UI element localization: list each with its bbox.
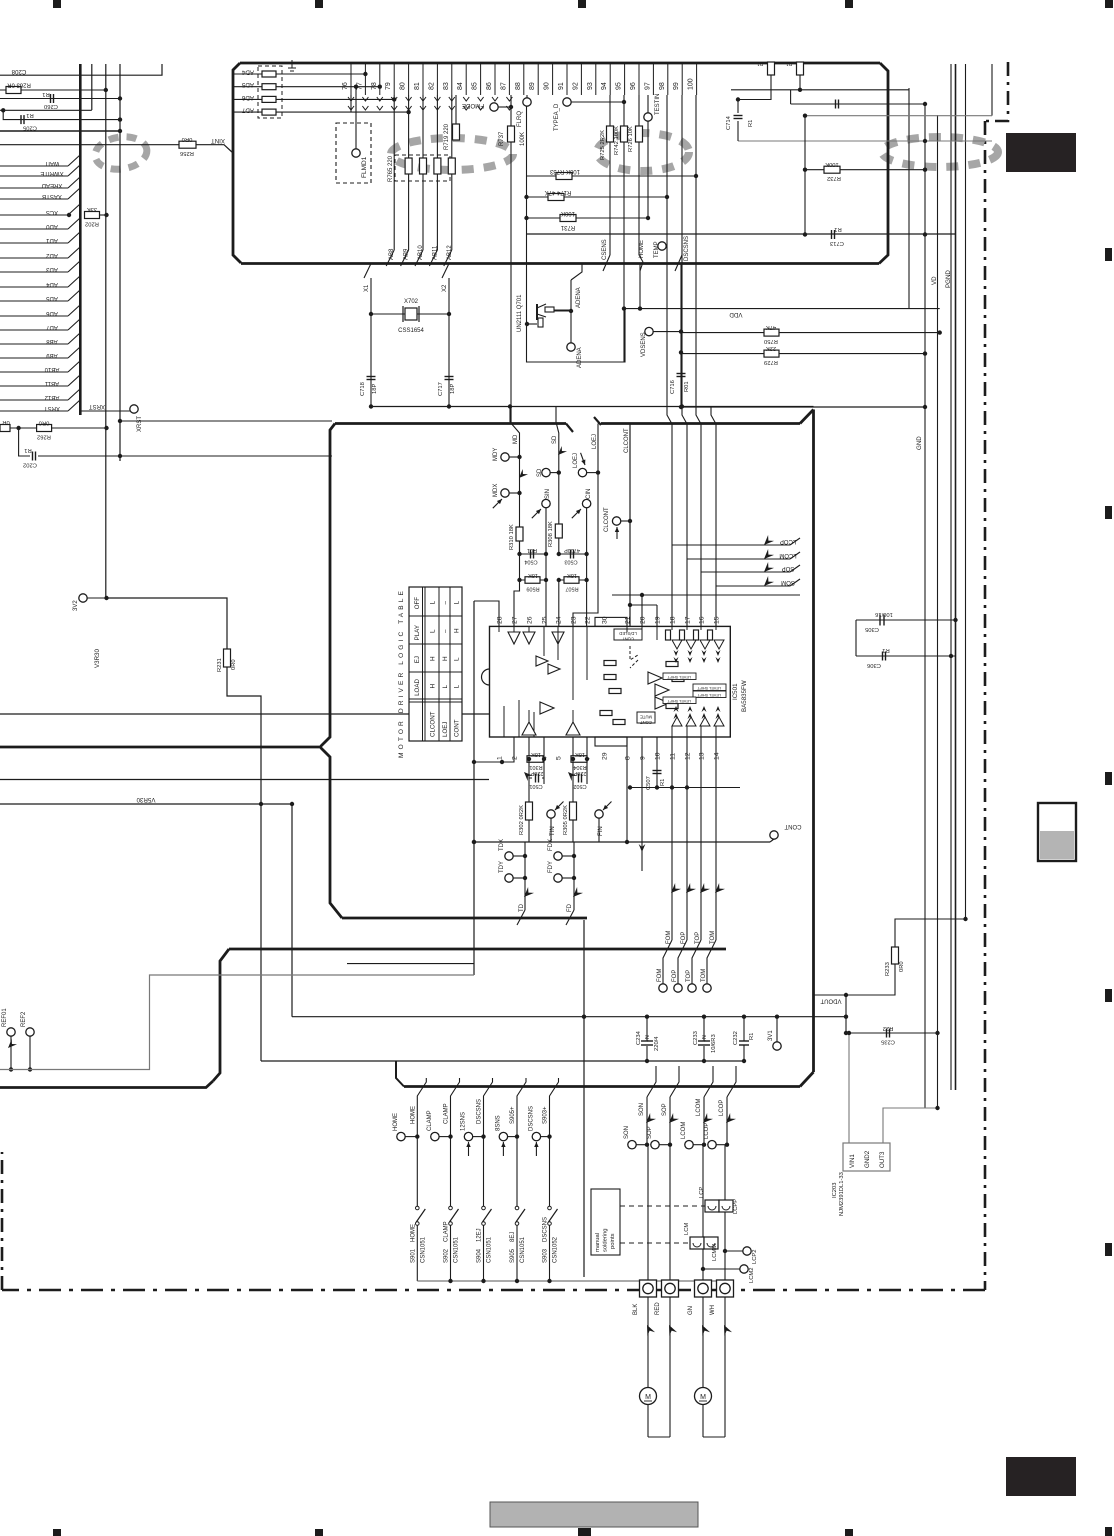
resistor R733 100K body: [556, 173, 572, 180]
svg-text:LD/SLED: LD/SLED: [619, 631, 636, 636]
labels CSENS HOME TEMP DSCSNS at IC bottom: [602, 236, 690, 261]
capacitor C234 220/4: [636, 1017, 660, 1061]
resistor R737 100K: [508, 126, 515, 142]
border dash-dot bottom horizontal: [2, 1289, 985, 1292]
resistor R231 0R0: [224, 649, 231, 667]
svg-text:PGND: PGND: [945, 270, 952, 288]
svg-text:R1: R1: [660, 779, 666, 786]
CIN circle: [582, 499, 590, 507]
svg-text:13: 13: [699, 752, 706, 760]
capacitor C205 plates: [20, 115, 22, 124]
capacitor C507 R1: [646, 737, 666, 790]
svg-text:XWRITE: XWRITE: [40, 170, 63, 176]
junction dots y1016: [582, 1015, 848, 1019]
connector LCM LCMM: [684, 1223, 718, 1261]
svg-text:16: 16: [699, 616, 706, 624]
svg-text:8: 8: [625, 756, 632, 760]
svg-text:V5R30: V5R30: [136, 796, 155, 803]
capacitor C205 line: [3, 110, 120, 119]
svg-text:R1: R1: [748, 120, 754, 127]
wires pins 98-100 down: [667, 95, 698, 407]
flag SOM: [716, 576, 800, 589]
arrow on MD wire: [516, 469, 528, 481]
svg-text:3V1: 3V1: [768, 1030, 774, 1041]
svg-text:AD5: AD5: [241, 81, 254, 88]
AD4-AD7 input lines: [233, 69, 411, 116]
svg-text:0R0: 0R0: [231, 659, 237, 670]
wire Q701 bottom loop: [527, 234, 626, 362]
X2 exit slant and label: [442, 264, 449, 293]
svg-text:L: L: [430, 629, 437, 633]
FLMD1 pin circle: [352, 149, 360, 157]
motor wire labels above: [639, 1099, 725, 1116]
IC203 labels: [832, 1172, 845, 1216]
REF2 circle: [21, 1011, 34, 1072]
wire y406 bus: [371, 406, 814, 408]
left address bus entry lines: [0, 155, 80, 411]
IC501 outline: [482, 617, 731, 746]
capacitor C260 line: [0, 98, 120, 100]
IC501 MUTE CONT box: [637, 712, 655, 725]
svg-text:XCS: XCS: [46, 209, 58, 215]
svg-text:LCM: LCM: [684, 1223, 690, 1235]
wires pins 15-18 up to flags: [667, 407, 716, 626]
svg-text:C235: C235: [881, 1039, 895, 1045]
resistor R305 0R2K: [563, 802, 577, 842]
wire pins 11-14 down FOM FOP TOP TOM: [670, 737, 716, 940]
servo block outline top edge: [335, 417, 800, 432]
resistor R302 0R2K: [519, 802, 533, 842]
switch bottom bus: [417, 1280, 733, 1282]
svg-text:R719 220: R719 220: [444, 123, 450, 150]
IC U201 outline right edge: [879, 63, 888, 264]
svg-text:CONT: CONT: [640, 720, 652, 725]
svg-text:100K: 100K: [825, 161, 839, 167]
svg-text:CLCONT: CLCONT: [430, 711, 437, 737]
svg-text:81: 81: [414, 82, 421, 90]
svg-text:R231: R231: [217, 658, 223, 672]
svg-text:R765 220: R765 220: [388, 155, 394, 182]
motor driver logic table grid: [409, 587, 462, 741]
switch bank net labels below edge: [410, 1099, 548, 1124]
svg-text:C503: C503: [564, 559, 577, 565]
svg-text:LCMM: LCMM: [712, 1244, 718, 1261]
svg-text:22K: 22K: [766, 345, 776, 351]
svg-text:24: 24: [556, 616, 563, 624]
switch bottom bus dots: [448, 1279, 551, 1283]
svg-text:C501: C501: [529, 783, 542, 789]
svg-text:22: 22: [585, 616, 592, 624]
svg-text:R1: R1: [834, 226, 841, 232]
motor M2 symbol: [695, 1388, 712, 1405]
svg-text:CSN1051: CSN1051: [487, 1236, 493, 1263]
right rail x937 PGND: [937, 115, 939, 1108]
right edge tick mark 5: [1105, 1243, 1112, 1256]
svg-text:LCOM: LCOM: [681, 1122, 687, 1139]
capacitor C504 R01 row: [517, 541, 548, 565]
gray highlight ring left: [93, 134, 149, 173]
resistor R731 100K body: [560, 215, 576, 222]
svg-text:LCOM: LCOM: [779, 552, 796, 558]
svg-text:R725 2R2K: R725 2R2K: [600, 130, 606, 160]
svg-text:R1: R1: [24, 447, 31, 453]
svg-text:AD6: AD6: [46, 310, 58, 316]
svg-text:XINT: XINT: [211, 137, 225, 144]
switch bank wires crossing bottom edge: [417, 1078, 558, 1137]
CIN pointer arrow: [570, 507, 582, 519]
svg-text:X702: X702: [404, 299, 419, 305]
svg-text:85: 85: [472, 82, 479, 90]
svg-text:HOME: HOME: [410, 1224, 416, 1242]
svg-text:CONT: CONT: [454, 719, 461, 737]
resistor R301 18K: [527, 737, 546, 770]
svg-text:220/4: 220/4: [654, 1036, 660, 1051]
resistor R507 18K row: [557, 572, 589, 592]
wire y88 from C714 area: [731, 89, 909, 91]
svg-text:FOM: FOM: [657, 969, 663, 982]
svg-text:C717: C717: [438, 382, 444, 396]
XRST circle and label: [80, 403, 143, 432]
SON SOP LCOM LCOP circles: [624, 1122, 729, 1149]
wire pin87 continue to Q701: [510, 407, 512, 424]
wire pin2 down: [502, 737, 514, 762]
capacitor C502 220P: [573, 759, 587, 802]
label 0R0 R256: [180, 136, 194, 156]
IC501 bottom pin numbers: [497, 752, 721, 760]
CONT circle: [770, 823, 802, 842]
svg-text:ADENA: ADENA: [576, 287, 582, 308]
wire pin77 FLMD1: [355, 87, 357, 150]
wire pin28 from left rail: [474, 601, 499, 626]
wire VDOUT down: [845, 995, 847, 1033]
svg-text:R1: R1: [42, 91, 49, 97]
wires pins 79-83 to AB8-AB12: [394, 95, 452, 250]
svg-text:S903: S903: [543, 1248, 549, 1263]
svg-text:AD4: AD4: [46, 281, 58, 287]
FDY circle: [548, 861, 576, 882]
svg-text:100K R733: 100K R733: [549, 168, 580, 174]
svg-text:LCPP: LCPP: [733, 1199, 739, 1214]
resistor R310 18K: [509, 524, 523, 550]
svg-text:AD7: AD7: [46, 324, 58, 330]
svg-text:33K: 33K: [87, 206, 97, 212]
motor M1 loop: [648, 1297, 670, 1437]
svg-text:AD6: AD6: [241, 94, 254, 101]
wire pin9 down: [639, 737, 646, 871]
svg-text:L: L: [454, 685, 461, 689]
svg-text:10/6R3: 10/6R3: [711, 1034, 717, 1053]
svg-text:VD: VD: [931, 276, 938, 285]
svg-text:18K: 18K: [575, 751, 585, 757]
AD4-AD7 dashed box: [258, 66, 282, 118]
right rail x925 VD: [924, 103, 926, 1108]
svg-text:C716: C716: [670, 380, 676, 394]
svg-text:R302 0R2K: R302 0R2K: [519, 805, 525, 835]
svg-text:CSN1051: CSN1051: [420, 1236, 426, 1263]
svg-text:18K: 18K: [531, 751, 541, 757]
servo block thick left elbow: [213, 949, 229, 1081]
switch sense circles: [393, 1106, 552, 1141]
svg-text:C260: C260: [44, 103, 58, 109]
MDY wire: [509, 456, 520, 458]
svg-text:8EJ: 8EJ: [510, 1232, 516, 1242]
svg-text:95: 95: [616, 82, 623, 90]
svg-text:OUT3: OUT3: [879, 1151, 886, 1168]
svg-text:CSN1052: CSN1052: [553, 1236, 559, 1263]
wire SIN net to pin25: [545, 580, 547, 626]
svg-text:HOME: HOME: [393, 1113, 399, 1131]
svg-text:17: 17: [685, 616, 692, 624]
svg-text:CLAMP: CLAMP: [444, 1221, 450, 1242]
svg-text:AB10: AB10: [44, 366, 59, 372]
svg-text:FDY: FDY: [548, 861, 554, 873]
svg-text:C714: C714: [726, 115, 732, 130]
registration mark bottom 4: [845, 1529, 853, 1536]
svg-text:R202: R202: [85, 221, 99, 227]
resistor R731 100K line: [527, 217, 649, 219]
registration mark bottom 3: [578, 1528, 591, 1536]
TYPEA_D wire to pin95: [571, 101, 624, 103]
svg-text:L: L: [442, 685, 449, 689]
svg-text:R732: R732: [827, 175, 841, 181]
svg-text:87: 87: [500, 82, 507, 90]
svg-text:CONT: CONT: [784, 823, 801, 829]
SIN pointer arrow: [530, 507, 542, 519]
svg-text:TYPEA_D: TYPEA_D: [554, 103, 560, 131]
svg-text:soldering: soldering: [603, 1228, 609, 1252]
FLMD1 dashed box: [336, 123, 371, 183]
resistor R733 100K line: [527, 175, 697, 177]
3V1 circle: [768, 1015, 781, 1051]
junction dots y1061: [645, 1059, 746, 1063]
svg-text:X2: X2: [442, 284, 448, 292]
wire y235 long with C713: [527, 226, 956, 246]
TD wire and arrow: [517, 842, 534, 925]
svg-text:25: 25: [542, 616, 549, 624]
svg-text:82: 82: [428, 82, 435, 90]
servo block thick y950 main: [229, 948, 726, 951]
resistor R233 0R0: [885, 917, 968, 976]
svg-text:SOP: SOP: [782, 565, 795, 571]
servo block outline bottom edge right part: [404, 1085, 800, 1088]
svg-text:H: H: [430, 684, 437, 689]
SIN circle: [542, 499, 550, 507]
wire y1069 long: [0, 975, 474, 1070]
REF01 circle: [2, 1008, 17, 1072]
wire CIN to pin22: [586, 554, 588, 626]
CLCONT stub: [621, 520, 630, 522]
svg-text:R726 10K: R726 10K: [628, 126, 634, 152]
svg-text:8SNS: 8SNS: [495, 1115, 501, 1131]
svg-text:R233: R233: [885, 962, 891, 976]
svg-text:S902: S902: [444, 1248, 450, 1263]
svg-text:93: 93: [587, 82, 594, 90]
registration mark top 4: [845, 0, 853, 8]
FMODE pin circle: [490, 103, 498, 111]
resistor R719 220: [453, 124, 460, 140]
label R231 0R0: [217, 658, 237, 672]
capacitor C260 plates: [50, 94, 52, 103]
right rail x951: [950, 64, 952, 1090]
servo block bus thick y950: [0, 746, 319, 749]
svg-text:100K: 100K: [561, 210, 575, 216]
svg-text:SD: SD: [537, 468, 543, 477]
svg-text:C234: C234: [636, 1030, 642, 1045]
svg-text:EJ: EJ: [414, 656, 421, 663]
svg-text:R174 47K: R174 47K: [545, 189, 572, 195]
svg-text:+N: +N: [702, 1035, 708, 1042]
wire y1016 long: [292, 1016, 846, 1018]
svg-text:GND: GND: [916, 436, 923, 450]
svg-text:L: L: [430, 601, 437, 605]
svg-text:points: points: [610, 1233, 616, 1249]
IC501 LD SLED CONT box: [614, 629, 642, 642]
svg-text:SOM: SOM: [781, 579, 795, 585]
svg-text:0R0: 0R0: [899, 961, 905, 972]
wire y421: [120, 420, 332, 422]
wire x681 vertical: [680, 264, 682, 407]
svg-text:12SNS: 12SNS: [461, 1112, 467, 1131]
svg-text:LOAD: LOAD: [414, 679, 421, 696]
capacitor C718 18P: [360, 377, 378, 397]
svg-text:manual: manual: [595, 1233, 601, 1252]
svg-text:GN: GN: [688, 1306, 694, 1315]
svg-text:R304: R304: [573, 764, 586, 770]
gray highlight bar bottom: [490, 1502, 698, 1527]
FMODE wire: [498, 106, 511, 108]
LOEJ wire entering: [573, 424, 598, 627]
VDOUT net: [814, 964, 896, 1004]
X1 exit slant and label: [364, 264, 371, 293]
svg-text:TDX: TDX: [499, 839, 505, 851]
svg-text:R308 18K: R308 18K: [548, 521, 554, 547]
pad arrows: [643, 1323, 732, 1336]
LOEJ circle: [578, 468, 586, 476]
svg-text:88: 88: [515, 82, 522, 90]
servo block outline left edge: [320, 424, 342, 919]
servo block outline top right chamfer: [800, 410, 814, 424]
svg-text:80: 80: [400, 82, 407, 90]
capacitor C232 R1: [733, 1017, 755, 1061]
svg-text:R305 0R2K: R305 0R2K: [563, 805, 569, 835]
IC203 NJM2391DL1-33 box: [843, 1143, 890, 1171]
servo block thick bottom left: [0, 1081, 213, 1088]
svg-text:X1: X1: [364, 284, 370, 292]
svg-text:R01: R01: [684, 381, 690, 392]
right rail x909: [908, 88, 910, 309]
border dash-dot left vertical: [1, 1152, 4, 1290]
manual soldering dashed links: [620, 1206, 705, 1243]
right rail x965: [965, 64, 967, 919]
svg-text:FD: FD: [567, 903, 573, 912]
svg-text:LCOP: LCOP: [704, 1123, 710, 1139]
svg-text:MDY: MDY: [493, 448, 499, 461]
IC U201 outline bottom edge: [241, 262, 879, 265]
gray highlight ring middle 2: [597, 133, 689, 171]
registration mark top right corner: [1105, 0, 1113, 8]
svg-text:LCOM: LCOM: [696, 1099, 702, 1116]
FDX circle: [548, 839, 576, 860]
svg-text:XRST: XRST: [89, 403, 105, 409]
wire pin87 down to VDSENS row: [510, 95, 512, 126]
svg-text:1: 1: [497, 756, 504, 760]
svg-text:S901: S901: [410, 1248, 416, 1263]
AB8-AB12 exit slants: [386, 250, 452, 266]
svg-text:18P: 18P: [450, 384, 456, 394]
IC203 wires: [847, 1031, 940, 1143]
registration mark top 3: [578, 0, 586, 8]
svg-text:WH: WH: [710, 1305, 716, 1315]
black patch top right: [1006, 133, 1076, 172]
svg-text:R750: R750: [764, 338, 778, 344]
svg-text:V3R30: V3R30: [94, 649, 101, 668]
svg-text:79: 79: [385, 82, 392, 90]
registration mark top 1: [53, 0, 61, 8]
svg-text:C306: C306: [867, 662, 881, 668]
svg-text:MOTOR DRIVER LOGIC TABLE: MOTOR DRIVER LOGIC TABLE: [398, 588, 405, 758]
wire pin76 down: [350, 95, 352, 112]
right edge tick mark 1: [1105, 248, 1112, 261]
ground symbol near AD4: [288, 60, 296, 74]
svg-text:FLMD1: FLMD1: [361, 156, 368, 178]
registration mark bottom 1: [53, 1529, 61, 1536]
svg-text:CSN1051: CSN1051: [520, 1236, 526, 1263]
svg-text:2: 2: [512, 756, 519, 760]
IC501 top pin numbers: [497, 616, 721, 624]
3V2 wire to rail: [87, 597, 107, 599]
svg-text:TOM: TOM: [701, 969, 707, 982]
svg-text:12EJ: 12EJ: [477, 1228, 483, 1242]
labels FOM FOP TOP TOM above bus: [666, 931, 716, 944]
transistor Q701 UN2111: [517, 294, 571, 332]
svg-text:DSCSNS: DSCSNS: [528, 1106, 534, 1131]
svg-text:CSN1051: CSN1051: [454, 1236, 460, 1263]
wire SD net to pin24: [558, 580, 560, 626]
svg-text:HOME: HOME: [410, 1106, 416, 1124]
svg-text:78: 78: [371, 82, 378, 90]
border dash-dot right vertical: [984, 121, 987, 1290]
svg-text:C205: C205: [23, 125, 37, 131]
wire MD net to pin27: [514, 580, 520, 626]
FD wire and arrow: [566, 842, 583, 925]
svg-text:C233: C233: [693, 1031, 699, 1045]
arrow TIN: [521, 769, 533, 781]
ADENA circle: [567, 343, 575, 351]
wire pin8 down: [626, 737, 628, 842]
svg-text:R263 0R: R263 0R: [6, 82, 30, 88]
flag LCOP: [672, 535, 800, 548]
svg-text:R1: R1: [882, 647, 889, 653]
black patch bottom right: [1006, 1457, 1076, 1496]
capacitor C233 10/6R3: [693, 1017, 717, 1061]
wire pin88 down: [526, 95, 528, 98]
connector LCP LCPP: [699, 1187, 739, 1214]
servo block outline bottom right chamfer: [800, 1072, 814, 1087]
svg-text:R1: R1: [749, 1033, 755, 1040]
wires pins 94-96 down: [610, 95, 639, 255]
switch wires down: [417, 1137, 549, 1206]
wire VSR30 y804: [0, 803, 292, 805]
svg-text:30: 30: [602, 616, 609, 624]
capacitor C501 220P: [529, 759, 544, 802]
svg-text:98: 98: [659, 82, 666, 90]
svg-text:H: H: [454, 628, 461, 633]
svg-text:18K: 18K: [567, 572, 577, 578]
svg-text:C502: C502: [573, 783, 586, 789]
servo block inner bottom edge y918: [342, 917, 587, 920]
arrow on SD wire: [555, 446, 567, 458]
right edge tick mark 3: [1105, 772, 1112, 785]
